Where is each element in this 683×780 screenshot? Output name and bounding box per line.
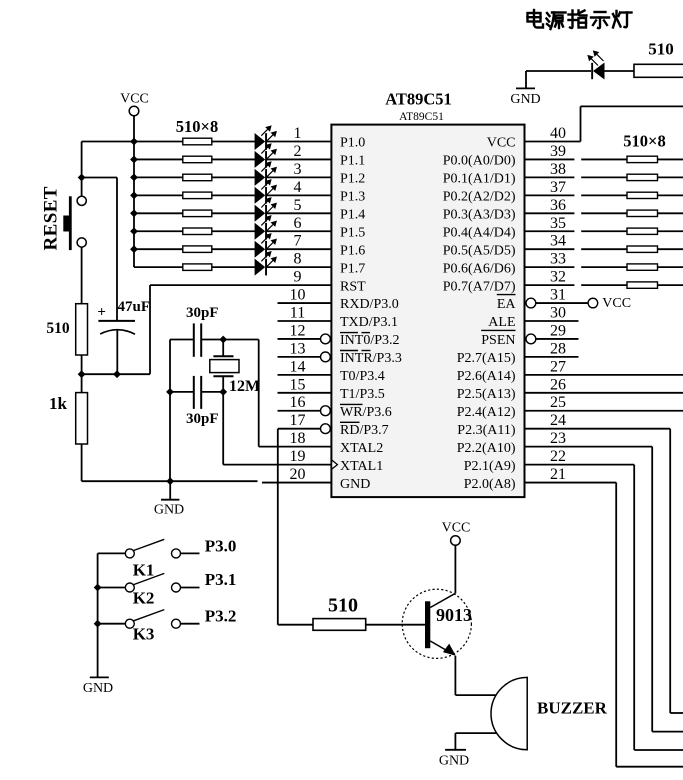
- svg-text:P2.1(A9): P2.1(A9): [464, 459, 516, 474]
- svg-text:VCC: VCC: [487, 136, 516, 151]
- svg-text:11: 11: [290, 305, 305, 322]
- junction bus row 3: [130, 174, 138, 182]
- junction ground rail: [166, 477, 174, 485]
- pushbutton RESET: [63, 196, 86, 250]
- svg-text:XTAL2: XTAL2: [340, 441, 383, 456]
- svg-text:40: 40: [550, 125, 566, 142]
- wire LED to IC row 5: [267, 212, 331, 214]
- wire cap branch down: [116, 178, 118, 321]
- VCC bus rail (LED bank): [133, 142, 135, 268]
- wire pin 20 GND stub: [262, 482, 331, 484]
- wire pin 19 XTAL1: [223, 464, 331, 466]
- svg-text:30: 30: [550, 305, 566, 322]
- svg-text:WR/P3.6: WR/P3.6: [340, 405, 392, 420]
- svg-text:21: 21: [550, 466, 566, 483]
- svg-text:15: 15: [290, 376, 306, 393]
- wire pin 32 to resistor: [525, 284, 628, 286]
- wire LED to IC row 8: [267, 266, 331, 268]
- IC right pin label EA (pin 31): [497, 295, 517, 313]
- svg-text:P1.5: P1.5: [340, 225, 365, 240]
- IC left pin label GND (pin 20): [340, 477, 370, 492]
- junction cap bottom: [113, 370, 121, 378]
- svg-text:P2.4(A12): P2.4(A12): [457, 405, 516, 420]
- LED D9 power indicator: [588, 51, 604, 79]
- wire pin 18 XTAL2: [259, 446, 332, 448]
- IC right pin label P2.2(A10) (pin 23): [457, 441, 516, 456]
- svg-text:27: 27: [550, 358, 566, 375]
- svg-text:P0.2(A2/D2): P0.2(A2/D2): [443, 190, 516, 205]
- IC left pin label P1.0 (pin 1): [340, 136, 365, 151]
- buzzer LS1: [491, 677, 527, 749]
- svg-text:K1: K1: [133, 561, 155, 580]
- wire pin 14 stub: [278, 374, 332, 376]
- active-low bubble pin 17: [321, 424, 331, 434]
- switch bus rail: [97, 553, 99, 677]
- wire pin 27 to right edge: [525, 374, 683, 376]
- resistor 510x8 element row 1: [183, 138, 212, 145]
- wire LED to IC row 4: [267, 194, 331, 196]
- resistor 510x8 element pin 36: [627, 210, 658, 216]
- active-low bubble pin 16: [321, 406, 331, 416]
- wire pin 29 stub: [536, 338, 579, 340]
- LED row 6: [255, 216, 277, 240]
- svg-text:P1.0: P1.0: [340, 136, 365, 151]
- wire pin 31 to VCC: [536, 302, 588, 304]
- active-low bubble pin 12: [321, 334, 331, 344]
- wire bus to resistor row 2: [134, 158, 183, 160]
- junction bus row 2: [130, 156, 138, 164]
- ground (power LED): [510, 71, 540, 107]
- wire resistor to LED row 5: [212, 212, 255, 214]
- svg-text:P0.6(A6/D6): P0.6(A6/D6): [443, 261, 516, 276]
- junction reset rail left: [78, 370, 86, 378]
- svg-text:P0.4(A4/D4): P0.4(A4/D4): [443, 225, 516, 240]
- wire pin 33 to resistor: [525, 266, 628, 268]
- IC left pin label RD/P3.7 (pin 17): [340, 422, 389, 438]
- active-low bubble pin 13: [321, 352, 331, 362]
- junction bus row 7: [130, 245, 138, 253]
- svg-text:EA: EA: [497, 297, 517, 312]
- VCC terminal (EA): [588, 296, 631, 311]
- capacitor 47uF: [97, 305, 135, 375]
- ground (crystal area): [154, 481, 184, 517]
- wire pin 13 stub: [278, 356, 321, 358]
- IC right pin label P2.6(A14) (pin 27): [457, 369, 516, 384]
- LED row 3: [255, 162, 277, 186]
- svg-text:P1.6: P1.6: [340, 243, 365, 258]
- junction bus row 1: [130, 138, 138, 146]
- svg-text:12: 12: [290, 322, 306, 339]
- wire resistor to LED row 3: [212, 176, 255, 178]
- svg-text:RESET: RESET: [41, 186, 62, 250]
- wire pin 15 stub: [278, 392, 332, 394]
- junction switch bus K2: [94, 584, 102, 592]
- wire pin 22 routed to right edge: [525, 465, 683, 750]
- IC left pin label P1.3 (pin 4): [340, 190, 365, 205]
- active-low bubble pin 29 PSEN: [526, 334, 536, 344]
- svg-text:INTR/P3.3: INTR/P3.3: [340, 351, 402, 366]
- svg-text:GND: GND: [340, 477, 370, 492]
- wire pin 9 RST row: [150, 284, 331, 286]
- wire bus to resistor row 3: [134, 176, 183, 178]
- junction bus row 4: [130, 191, 138, 199]
- svg-text:31: 31: [550, 287, 566, 304]
- svg-text:AT89C51: AT89C51: [385, 90, 452, 109]
- IC left pin label P1.7 (pin 8): [340, 261, 365, 276]
- svg-text:T0/P3.4: T0/P3.4: [340, 369, 385, 384]
- svg-text:30pF: 30pF: [186, 411, 219, 427]
- svg-text:13: 13: [290, 340, 306, 357]
- wire pin 21 routed to right edge: [525, 483, 683, 767]
- wire VCC pin40 riser: [581, 106, 683, 141]
- IC left pin label RST (pin 9): [340, 279, 366, 294]
- IC right pin label P2.0(A8) (pin 21): [464, 477, 516, 492]
- svg-text:23: 23: [550, 430, 566, 447]
- wire pin 34 to resistor: [525, 248, 628, 250]
- IC left pin label INTR/P3.3 (pin 13): [340, 351, 402, 367]
- power VCC (transistor): [442, 521, 471, 546]
- wire resistor pin 35 to edge: [658, 230, 683, 232]
- svg-text:P1.2: P1.2: [340, 172, 365, 187]
- switch K2: [98, 573, 200, 592]
- switch K3: [98, 610, 200, 629]
- capacitor 30pF (top): [170, 323, 223, 356]
- svg-text:P2.0(A8): P2.0(A8): [464, 477, 516, 492]
- svg-text:P0.5(A5/D5): P0.5(A5/D5): [443, 243, 516, 258]
- resistor 1k: [76, 374, 88, 444]
- wire reset rail: [82, 373, 150, 375]
- svg-text:26: 26: [550, 376, 566, 393]
- power VCC (top left): [120, 92, 149, 116]
- svg-text:GND: GND: [83, 681, 113, 696]
- IC right pin label P0.5(A5/D5) (pin 34): [443, 243, 516, 258]
- IC left pin label WR/P3.6 (pin 16): [340, 404, 392, 420]
- junction caps left bottom: [166, 388, 174, 396]
- svg-text:1k: 1k: [49, 394, 68, 413]
- wire pin 11 stub: [278, 320, 332, 322]
- wire resistor pin 39 to edge: [658, 158, 683, 160]
- svg-text:4: 4: [294, 179, 302, 196]
- svg-text:8: 8: [294, 251, 302, 268]
- svg-text:RD/P3.7: RD/P3.7: [340, 423, 389, 438]
- LED row 1: [255, 126, 277, 150]
- svg-text:20: 20: [290, 466, 306, 483]
- IC right pin label P0.6(A6/D6) (pin 33): [443, 261, 516, 276]
- wire pin 40 VCC row: [525, 141, 581, 143]
- wire resistor to LED row 7: [212, 248, 255, 250]
- IC left pin label TXD/P3.1 (pin 11): [340, 315, 398, 330]
- resistor 510x8 element row 8: [183, 264, 212, 271]
- svg-text:30pF: 30pF: [186, 305, 219, 321]
- svg-text:PSEN: PSEN: [481, 333, 515, 348]
- IC right pin label P0.0(A0/D0) (pin 39): [443, 154, 516, 169]
- IC left pin label RXD/P3.0 (pin 10): [340, 297, 399, 312]
- LED row 2: [255, 144, 277, 168]
- svg-text:T1/P3.5: T1/P3.5: [340, 387, 385, 402]
- svg-text:39: 39: [550, 143, 566, 160]
- junction bus row 5: [130, 209, 138, 217]
- svg-text:P2.2(A10): P2.2(A10): [457, 441, 516, 456]
- resistor 510 (reset): [76, 304, 88, 355]
- wire XTAL1 riser: [222, 392, 224, 465]
- svg-text:510×8: 510×8: [623, 132, 665, 151]
- wire resistor pin 38 to edge: [658, 176, 683, 178]
- resistor 510x8 element row 2: [183, 156, 212, 163]
- wire resistor to LED row 8: [212, 266, 255, 268]
- resistor 510x8 element pin 32: [627, 282, 658, 288]
- svg-text:16: 16: [290, 394, 306, 411]
- IC right pin label P0.1(A1/D1) (pin 38): [443, 172, 516, 187]
- svg-text:47uF: 47uF: [118, 299, 151, 315]
- IC right pin label ALE (pin 30): [488, 315, 515, 330]
- LED row 5: [255, 198, 277, 222]
- IC left pin label P1.5 (pin 6): [340, 225, 365, 240]
- svg-text:GND: GND: [510, 92, 540, 107]
- svg-text:510×8: 510×8: [176, 117, 218, 136]
- svg-text:P0.1(A1/D1): P0.1(A1/D1): [443, 172, 516, 187]
- svg-text:510: 510: [46, 320, 70, 337]
- wire LED to resistor: [605, 70, 635, 72]
- wire bus to resistor row 4: [134, 194, 183, 196]
- svg-text:35: 35: [550, 215, 566, 232]
- junction bus row 6: [130, 227, 138, 235]
- IC right pin label VCC (pin 40): [487, 136, 516, 151]
- svg-text:P3.0: P3.0: [205, 536, 237, 555]
- wire GND to LED: [526, 70, 591, 72]
- resistor 510x8 element pin 39: [627, 156, 658, 162]
- wire resistor pin 33 to edge: [658, 266, 683, 268]
- wire node to cap branch: [82, 177, 117, 179]
- svg-text:22: 22: [550, 448, 566, 465]
- wire pin 28 stub: [525, 356, 579, 358]
- junction crystal top: [219, 336, 227, 344]
- svg-text:2: 2: [294, 143, 302, 160]
- wire resistor pin 36 to edge: [658, 212, 683, 214]
- wire pin 39 to resistor: [525, 158, 628, 160]
- wire resistor pin 32 to edge: [658, 284, 683, 286]
- svg-text:12M: 12M: [229, 378, 260, 395]
- wire 1k to ground rail: [81, 444, 83, 481]
- svg-text:VCC: VCC: [602, 296, 631, 311]
- IC left pin label T1/P3.5 (pin 15): [340, 387, 385, 402]
- wire emitter down: [455, 656, 496, 695]
- LED row 7: [255, 234, 277, 258]
- label: power indicator title (Chinese): [528, 10, 632, 29]
- svg-text:P3.1: P3.1: [205, 570, 237, 589]
- svg-text:7: 7: [294, 233, 302, 250]
- wire LED to IC row 6: [267, 230, 331, 232]
- svg-text:P1.3: P1.3: [340, 190, 365, 205]
- svg-text:VCC: VCC: [442, 521, 471, 536]
- IC right pin label PSEN (pin 29): [481, 330, 515, 348]
- active-low bubble pin 31 EA: [526, 298, 536, 308]
- ground (buzzer): [439, 750, 469, 769]
- svg-text:INT0/P3.2: INT0/P3.2: [340, 333, 400, 348]
- input arrow pin 19 XTAL1: [332, 460, 338, 469]
- svg-text:RXD/P3.0: RXD/P3.0: [340, 297, 399, 312]
- IC right pin label P0.4(A4/D4) (pin 35): [443, 225, 516, 240]
- wire VCC to rail: [133, 116, 135, 142]
- junction crystal bottom: [219, 388, 227, 396]
- svg-text:17: 17: [290, 412, 306, 429]
- wire bus to resistor row 1: [134, 141, 183, 143]
- resistor 510x8 element pin 33: [627, 264, 658, 270]
- resistor 510x8 element pin 38: [627, 174, 658, 180]
- svg-text:P3.2: P3.2: [205, 606, 237, 625]
- wire resistor to base: [366, 624, 425, 626]
- wire switch to resistor: [81, 247, 83, 304]
- svg-text:P0.0(A0/D0): P0.0(A0/D0): [443, 154, 516, 169]
- ground rail: [82, 480, 258, 482]
- svg-text:RST: RST: [340, 279, 366, 294]
- wire XTAL2 riser: [258, 340, 260, 447]
- svg-text:19: 19: [290, 448, 306, 465]
- svg-text:P2.3(A11): P2.3(A11): [457, 423, 516, 438]
- svg-text:10: 10: [290, 287, 306, 304]
- svg-text:510: 510: [328, 595, 358, 617]
- wire resistor to LED row 1: [212, 141, 255, 143]
- IC left pin label INT0/P3.2 (pin 12): [340, 333, 400, 349]
- svg-text:XTAL1: XTAL1: [340, 459, 383, 474]
- wire LED to IC row 1: [267, 141, 331, 143]
- resistor 510x8 element row 3: [183, 174, 212, 181]
- wire bus to resistor row 5: [134, 212, 183, 214]
- resistor 510x8 element row 7: [183, 246, 212, 253]
- wire row1 to reset branch: [82, 141, 134, 143]
- svg-text:+: +: [97, 305, 106, 321]
- wire caps left leg: [169, 340, 171, 482]
- svg-text:P0.7(A7/D7): P0.7(A7/D7): [443, 279, 516, 294]
- svg-text:5: 5: [294, 197, 302, 214]
- wire top junction to XTAL2 riser: [223, 339, 259, 341]
- svg-text:ALE: ALE: [488, 315, 515, 330]
- svg-text:24: 24: [550, 412, 566, 429]
- resistor 510x8 element row 6: [183, 228, 212, 235]
- wire buzzer return: [455, 733, 496, 750]
- wire pin 25 to right edge: [525, 410, 683, 412]
- svg-text:38: 38: [550, 161, 566, 178]
- IC right pin label P2.7(A15) (pin 28): [457, 351, 516, 366]
- resistor 510x8 element pin 34: [627, 246, 658, 252]
- svg-text:28: 28: [550, 340, 566, 357]
- switch K1: [98, 539, 200, 558]
- junction switch bus K3: [94, 620, 102, 628]
- resistor 510x8 element row 5: [183, 210, 212, 217]
- svg-text:BUZZER: BUZZER: [537, 699, 608, 718]
- resistor 510x8 element pin 37: [627, 192, 658, 198]
- IC right pin label P2.3(A11) (pin 24): [457, 423, 516, 438]
- wire pin 35 to resistor: [525, 230, 628, 232]
- wire pin 23 routed to right edge: [525, 447, 683, 732]
- svg-text:29: 29: [550, 322, 566, 339]
- IC right pin label P2.5(A13) (pin 26): [457, 387, 516, 402]
- svg-text:33: 33: [550, 251, 566, 268]
- wire pin 37 to resistor: [525, 194, 628, 196]
- svg-text:P2.5(A13): P2.5(A13): [457, 387, 516, 402]
- wire resistor pin 37 to edge: [658, 194, 683, 196]
- svg-text:P2.6(A14): P2.6(A14): [457, 369, 516, 384]
- IC left pin label XTAL1 (pin 19): [340, 459, 383, 474]
- IC left pin label P1.4 (pin 5): [340, 208, 365, 223]
- wire resistor to LED row 2: [212, 158, 255, 160]
- svg-text:P1.4: P1.4: [340, 208, 365, 223]
- svg-text:GND: GND: [154, 503, 184, 518]
- svg-text:P1.7: P1.7: [340, 261, 365, 276]
- svg-text:510: 510: [648, 40, 674, 59]
- wire pin 10 stub: [278, 302, 332, 304]
- op-amp substitute: IC U1 AT89C51 body: [331, 125, 524, 498]
- wire pin 12 stub: [278, 338, 321, 340]
- wire resistor to rail: [81, 355, 83, 374]
- svg-text:32: 32: [550, 269, 566, 286]
- wire pin 30 ALE stub: [525, 320, 579, 322]
- IC left pin label XTAL2 (pin 18): [340, 441, 383, 456]
- svg-text:VCC: VCC: [120, 92, 149, 107]
- svg-text:1: 1: [294, 125, 302, 142]
- svg-text:18: 18: [290, 430, 306, 447]
- svg-text:37: 37: [550, 179, 566, 196]
- junction reset node: [78, 174, 86, 182]
- svg-text:9: 9: [294, 269, 302, 286]
- IC right pin label P0.7(A7/D7) (pin 32): [443, 279, 516, 294]
- IC left pin label T0/P3.4 (pin 14): [340, 369, 385, 384]
- resistor 510 (power LED): [634, 64, 683, 77]
- IC right pin label P2.1(A9) (pin 22): [464, 459, 516, 474]
- wire LED to IC row 7: [267, 248, 331, 250]
- IC right pin label P0.3(A3/D3) (pin 36): [443, 208, 516, 223]
- svg-text:14: 14: [290, 358, 306, 375]
- wire pin 17 RD/P3.7 to buzzer driver: [278, 428, 321, 430]
- svg-text:9013: 9013: [436, 605, 472, 625]
- LED row 8: [255, 252, 277, 276]
- wire RST riser: [149, 285, 151, 374]
- svg-text:3: 3: [294, 161, 302, 178]
- wire LED to IC row 2: [267, 158, 331, 160]
- wire VCC to collector: [454, 545, 456, 593]
- wire pin 26 to right edge: [525, 392, 683, 394]
- wire resistor pin 34 to edge: [658, 248, 683, 250]
- svg-text:TXD/P3.1: TXD/P3.1: [340, 315, 398, 330]
- svg-text:36: 36: [550, 197, 566, 214]
- wire bus to resistor row 8: [134, 266, 183, 268]
- svg-text:P0.3(A3/D3): P0.3(A3/D3): [443, 208, 516, 223]
- transistor Q1 9013: [402, 589, 471, 658]
- capacitor 30pF (bottom): [170, 376, 223, 409]
- wire bus to resistor row 7: [134, 248, 183, 250]
- wire pin 24 routed to right edge: [525, 429, 683, 713]
- wire P3.7 down to base resistor: [278, 429, 313, 625]
- IC left pin label P1.6 (pin 7): [340, 243, 365, 258]
- wire resistor to LED row 4: [212, 194, 255, 196]
- IC right pin label P0.2(A2/D2) (pin 37): [443, 190, 516, 205]
- svg-text:6: 6: [294, 215, 302, 232]
- svg-text:AT89C51: AT89C51: [399, 111, 444, 123]
- resistor 510x8 element row 4: [183, 192, 212, 199]
- svg-text:25: 25: [550, 394, 566, 411]
- svg-text:P1.1: P1.1: [340, 154, 365, 169]
- wire pin 36 to resistor: [525, 212, 628, 214]
- crystal X1 12M: [210, 340, 239, 392]
- resistor 510x8 element pin 35: [627, 228, 658, 234]
- svg-text:34: 34: [550, 233, 566, 250]
- ground (switches): [83, 677, 113, 696]
- svg-text:P2.7(A15): P2.7(A15): [457, 351, 516, 366]
- LED row 4: [255, 180, 277, 204]
- wire resistor to LED row 6: [212, 230, 255, 232]
- svg-text:GND: GND: [439, 754, 469, 769]
- wire LED to IC row 3: [267, 176, 331, 178]
- IC right pin label P2.4(A12) (pin 25): [457, 405, 516, 420]
